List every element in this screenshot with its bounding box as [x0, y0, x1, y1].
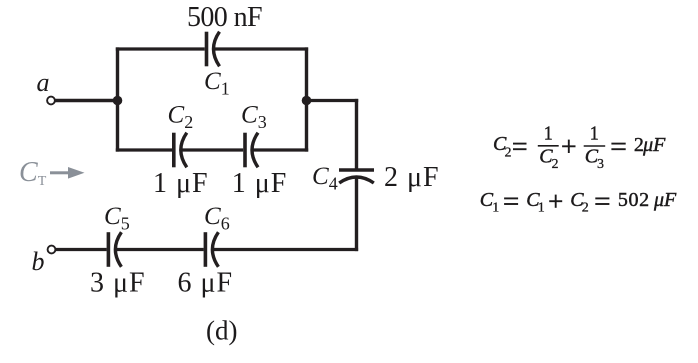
wire b-to-C5	[55, 248, 107, 251]
wire bottom rail center	[114, 248, 203, 251]
svg-text:1: 1	[590, 122, 599, 144]
terminal b circle	[48, 246, 56, 254]
wire middle rail right	[251, 148, 308, 151]
wire C4 vertical top	[355, 99, 358, 169]
fraction bar 2	[584, 145, 606, 147]
svg-text:1: 1	[544, 122, 553, 144]
plus sign eq2	[549, 200, 562, 202]
wire left vertical	[116, 47, 119, 151]
wire bottom rail right	[211, 248, 358, 251]
svg-text:(d): (d)	[206, 316, 237, 346]
svg-text:a: a	[37, 68, 50, 97]
svg-text:2 μF: 2 μF	[384, 162, 440, 193]
plus sign eq1	[562, 145, 575, 147]
svg-text:3: 3	[597, 157, 604, 172]
svg-text:μF: μF	[642, 134, 666, 156]
wire top rail right	[213, 47, 309, 50]
svg-text:500 nF: 500 nF	[187, 2, 262, 33]
junction dot left	[113, 96, 123, 106]
equals sign 2 of eq2	[595, 197, 609, 199]
svg-text:CT: CT	[19, 157, 47, 189]
svg-text:1 μF: 1 μF	[232, 168, 288, 199]
wire a-to-junction	[55, 99, 117, 103]
capacitor C2	[174, 133, 187, 168]
svg-text:3 μF: 3 μF	[90, 268, 146, 299]
svg-text:μF: μF	[653, 189, 677, 211]
svg-text:C3: C3	[241, 102, 267, 133]
svg-text:2: 2	[582, 200, 589, 215]
svg-text:b: b	[32, 247, 45, 276]
junction dot right	[302, 96, 312, 106]
wire right vertical	[305, 47, 308, 151]
equals sign 1 of eq2	[504, 197, 518, 199]
svg-text:502: 502	[618, 189, 650, 211]
svg-text:1: 1	[492, 200, 499, 215]
arrow CT	[50, 167, 85, 179]
svg-text:2: 2	[552, 157, 559, 172]
svg-text:2: 2	[505, 146, 512, 161]
svg-text:1 μF: 1 μF	[153, 168, 209, 199]
capacitor C5	[108, 232, 121, 267]
wire middle rail center	[180, 148, 243, 151]
equals sign 2 of eq1	[611, 143, 625, 145]
capacitor C4	[339, 170, 374, 183]
capacitor C3	[245, 133, 258, 168]
svg-text:6 μF: 6 μF	[178, 268, 234, 299]
wire middle rail left	[116, 148, 172, 151]
equals sign 1 of eq1	[513, 143, 527, 145]
svg-text:C1: C1	[204, 68, 230, 99]
terminal a circle	[47, 97, 55, 105]
wire C4 vertical bottom	[355, 177, 358, 252]
svg-text:1: 1	[538, 200, 545, 215]
capacitor C1	[207, 32, 220, 67]
wire node-to-C4	[307, 99, 359, 102]
svg-text:C2: C2	[168, 102, 194, 133]
svg-text:C4: C4	[312, 163, 338, 194]
capacitor C6	[205, 232, 218, 267]
equation 2: C1 = C1 + C2 = 502 uF	[480, 189, 677, 215]
fraction bar 1	[538, 145, 559, 147]
wire top rail left	[116, 47, 205, 50]
equation 1: C2 = 1/C2 + 1/C3 = 2uF	[493, 122, 666, 172]
svg-text:C5: C5	[104, 203, 130, 234]
svg-text:C6: C6	[204, 203, 230, 234]
